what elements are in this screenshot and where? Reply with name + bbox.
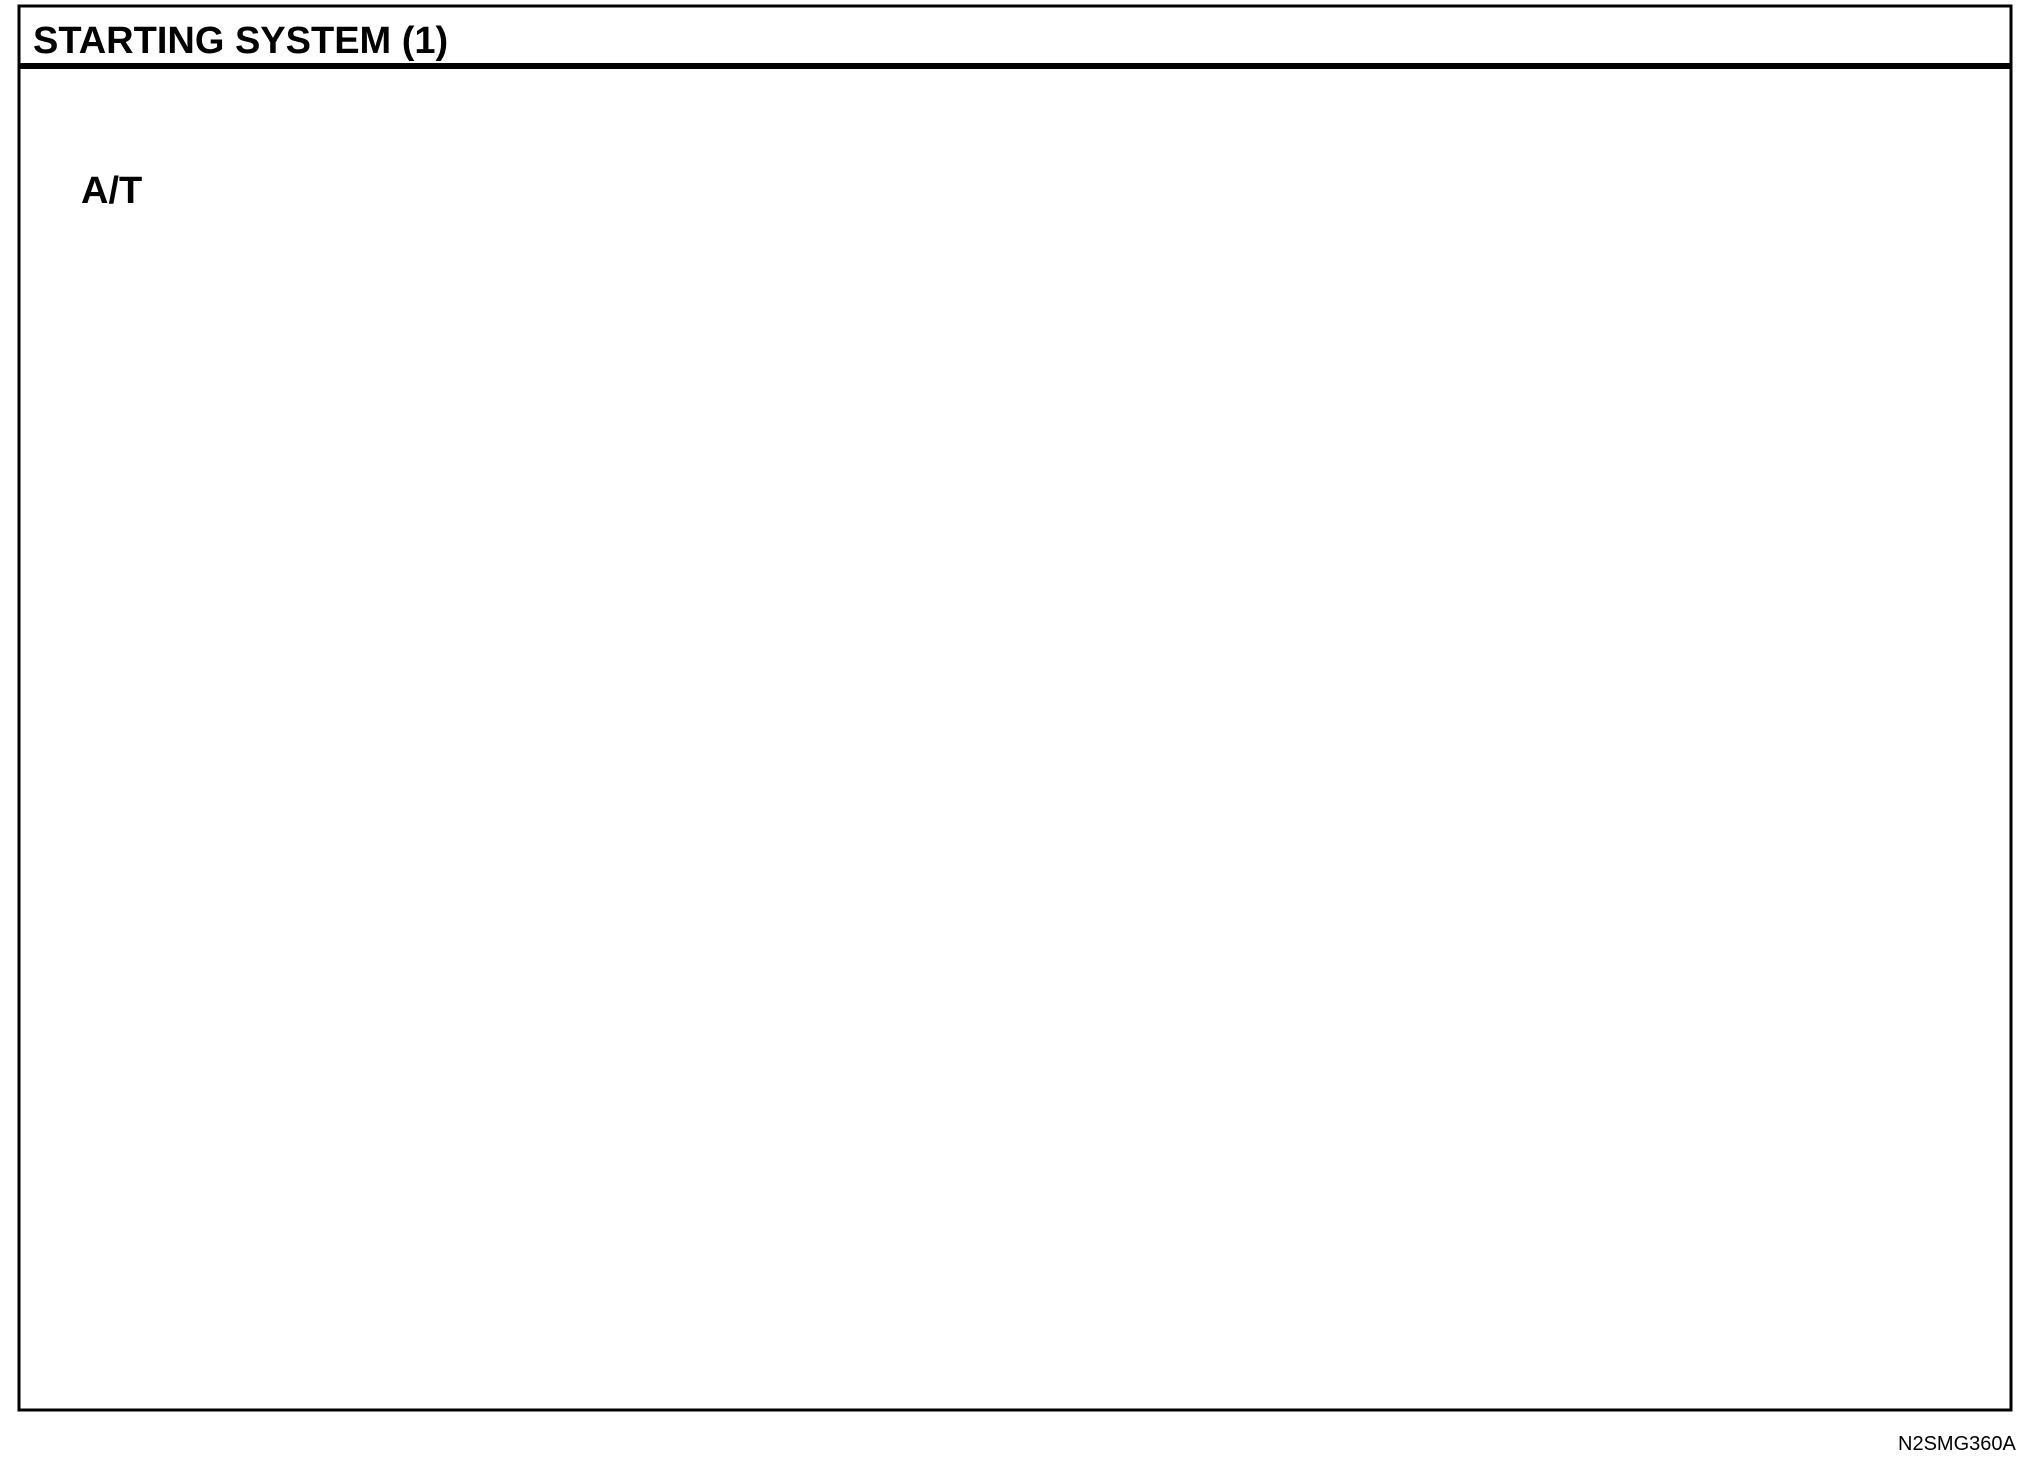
svg-text:STARTING SYSTEM (1): STARTING SYSTEM (1) (33, 20, 448, 62)
title bar separator (19, 63, 2011, 69)
svg-text:A/T: A/T (81, 170, 142, 212)
svg-text:N2SMG360A: N2SMG360A (1898, 1433, 2016, 1455)
